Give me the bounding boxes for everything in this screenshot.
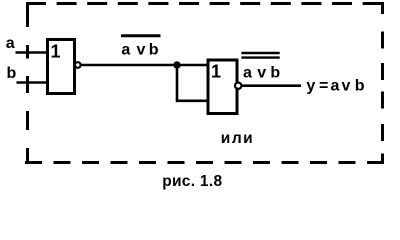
- svg-text:1: 1: [51, 42, 61, 62]
- wire from DD1 output to DD2 input: [81, 64, 208, 67]
- dashed boundary box: left edge dashes: [26, 2, 29, 163]
- double overline of output node label: [241, 53, 279, 58]
- wire branch to DD2 lower input: [177, 65, 208, 101]
- svg-text:b: b: [7, 65, 17, 82]
- svg-text:или: или: [221, 130, 254, 147]
- svg-text:a: a: [6, 35, 15, 52]
- dashed boundary box: bottom edge: [25, 161, 384, 164]
- gate DD1 (NOR, symbol "1") body: [48, 40, 75, 94]
- dashed boundary box: right edge dashes: [381, 2, 384, 163]
- junction node: [173, 61, 180, 68]
- wire input b: [17, 81, 48, 84]
- overline of node label (a v b): [121, 34, 161, 37]
- output wire: [242, 84, 301, 87]
- gate DD2 inversion bubble: [235, 83, 241, 89]
- wire input a: [16, 51, 48, 54]
- svg-text:y=avb: y=avb: [306, 78, 364, 95]
- dashed boundary box: top edge: [26, 2, 384, 5]
- svg-text:рис. 1.8: рис. 1.8: [162, 173, 222, 190]
- svg-text:1: 1: [211, 61, 221, 81]
- gate DD2 (NOT, symbol "1") body: [208, 60, 237, 114]
- svg-text:avb: avb: [243, 64, 280, 81]
- svg-text:avb: avb: [121, 41, 158, 58]
- gate DD1 inversion bubble: [75, 62, 81, 68]
